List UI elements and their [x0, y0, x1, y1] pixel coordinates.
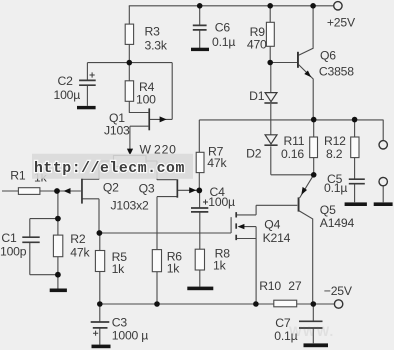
wire R9 leads [269, 6, 271, 63]
wire Q2 stubs [83, 179, 100, 233]
svg-text:100: 100 [136, 92, 156, 106]
wire R5 leads [99, 233, 101, 304]
transistor Q1 [104, 108, 167, 137]
wire input [2, 190, 57, 192]
resistor R2 [53, 232, 90, 260]
svg-text:C6: C6 [215, 21, 231, 35]
wire Q2 gate [57, 190, 81, 192]
wire Q6 emitter [299, 65, 314, 120]
capacitor C3 [91, 316, 149, 343]
svg-text:0.1µ: 0.1µ [212, 35, 235, 49]
wire output terminal 2 stub [382, 186, 384, 202]
terminal output bottom [379, 177, 387, 185]
svg-text:Q3: Q3 [139, 181, 155, 195]
diode D2 [246, 135, 278, 161]
resistor R6 [152, 249, 182, 275]
wire Q5 emitter [300, 175, 314, 198]
capacitor C6 [193, 21, 236, 49]
svg-text:100p: 100p [0, 245, 27, 259]
wire Q5 collector [299, 211, 312, 304]
ground under C2 [77, 106, 96, 109]
ground under C3 [92, 345, 111, 349]
wire output node [199, 120, 383, 141]
wire C2 leads [86, 63, 88, 106]
svg-text:−25V: −25V [324, 284, 353, 298]
resistor R10 [259, 279, 302, 307]
svg-text:A1494: A1494 [320, 216, 355, 230]
wire R11 leads [313, 120, 315, 175]
wire Q1 source to pot wiper [130, 126, 149, 149]
svg-text:1000 µ: 1000 µ [112, 329, 148, 343]
svg-text:R1: R1 [10, 168, 26, 182]
potentiometer W 220 [114, 143, 177, 167]
svg-text:8.2: 8.2 [326, 147, 343, 161]
svg-text:470: 470 [247, 38, 267, 52]
transistor Q5 [298, 187, 355, 230]
wire pot right lead to Q3 drain [146, 161, 157, 180]
ground under C6 [191, 48, 209, 51]
svg-text:C3858: C3858 [319, 64, 354, 78]
wire Q2 source to Q4 gate [99, 217, 231, 233]
ground under R8 [187, 287, 213, 291]
wire node R3/R4/C2 [87, 62, 172, 64]
svg-text:27: 27 [288, 279, 302, 293]
wire C4 R8 column [199, 190, 201, 286]
wire C6 leads [199, 6, 201, 49]
wire Q4 drain to Q5 base [237, 205, 298, 215]
svg-text:47k: 47k [207, 156, 227, 170]
capacitor C5 [324, 172, 365, 195]
transistor Q4 mosfet [236, 212, 290, 245]
resistor R5 [95, 250, 127, 276]
resistor R8 [195, 246, 230, 272]
svg-text:100µ: 100µ [208, 195, 235, 209]
svg-text:Q2: Q2 [103, 180, 119, 194]
svg-text:D1: D1 [249, 89, 265, 103]
svg-text:1k: 1k [213, 258, 227, 272]
svg-text:Q6: Q6 [320, 48, 336, 62]
svg-text:100µ: 100µ [54, 88, 81, 102]
wire R4 leads [128, 63, 130, 113]
ground under C5 [345, 202, 367, 206]
terminal +25V [327, 2, 356, 30]
svg-text:1k: 1k [112, 262, 126, 276]
wire pot left lead to Q2 drain [99, 161, 114, 179]
svg-text:J103x2: J103x2 [111, 198, 150, 212]
transistor Q3 [111, 179, 197, 212]
capacitor C1 [0, 231, 40, 258]
wire C7 leads [312, 304, 314, 343]
svg-text:R3: R3 [145, 25, 161, 39]
wire Q4 source stubs [237, 227, 256, 304]
wire Q6 base [270, 62, 297, 64]
watermark band [32, 154, 193, 179]
svg-text:J103: J103 [104, 123, 130, 137]
resistor R9 [247, 22, 274, 51]
resistor R12 [324, 134, 359, 161]
resistor R1 [10, 168, 47, 194]
wire bottom rail [100, 303, 334, 305]
wire input shunt C1 R2 [30, 191, 58, 289]
svg-text:K214: K214 [263, 231, 291, 245]
wire top +25V rail [129, 5, 334, 7]
wire Q3 stubs [157, 180, 199, 250]
terminal -25V [324, 284, 353, 308]
transistor Q2 [64, 178, 120, 204]
svg-text:R10: R10 [259, 279, 281, 293]
svg-text:0.16: 0.16 [281, 147, 304, 161]
faint watermark bottom right [289, 324, 334, 339]
watermark text [34, 161, 185, 177]
svg-text:C3: C3 [112, 316, 128, 330]
wire Q1 gate to node [150, 63, 172, 120]
ground under R2 C1 [50, 289, 67, 293]
wire Q1 drain stub [129, 112, 149, 114]
svg-text:R2: R2 [70, 232, 86, 246]
resistor R11 [281, 134, 318, 161]
wire R12 C5 leads [354, 120, 356, 203]
wire R7 leads [198, 120, 200, 190]
svg-text:0.1µ: 0.1µ [324, 181, 347, 195]
wire diode chain column [271, 63, 314, 175]
capacitor C7 [274, 316, 322, 343]
diode D1 [249, 89, 278, 103]
transistor Q6 [297, 48, 354, 78]
resistor R7 [196, 144, 227, 172]
resistor R4 [125, 80, 156, 106]
wire R6 lead [156, 272, 158, 304]
svg-text:Q4: Q4 [264, 218, 280, 232]
ground under terminal 2 [374, 202, 393, 206]
wire Q6 collector [299, 6, 314, 55]
capacitor C2 [54, 72, 96, 101]
svg-text:47k: 47k [70, 246, 90, 260]
svg-text:1k: 1k [167, 262, 181, 276]
svg-text:+25V: +25V [327, 15, 356, 29]
svg-text:C2: C2 [58, 74, 74, 88]
svg-text:D2: D2 [246, 147, 262, 161]
terminal output top [379, 141, 387, 149]
svg-text:3.3k: 3.3k [145, 38, 168, 52]
svg-text:C1: C1 [1, 231, 17, 245]
svg-text:WWW.: WWW. [289, 324, 334, 339]
wire R3 column [128, 6, 130, 63]
wire C3 leads [99, 304, 101, 345]
resistor R3 [125, 24, 168, 52]
capacitor C4 [191, 185, 235, 212]
ground under C7 [304, 343, 329, 347]
svg-text:http://elecm.com: http://elecm.com [34, 161, 185, 177]
